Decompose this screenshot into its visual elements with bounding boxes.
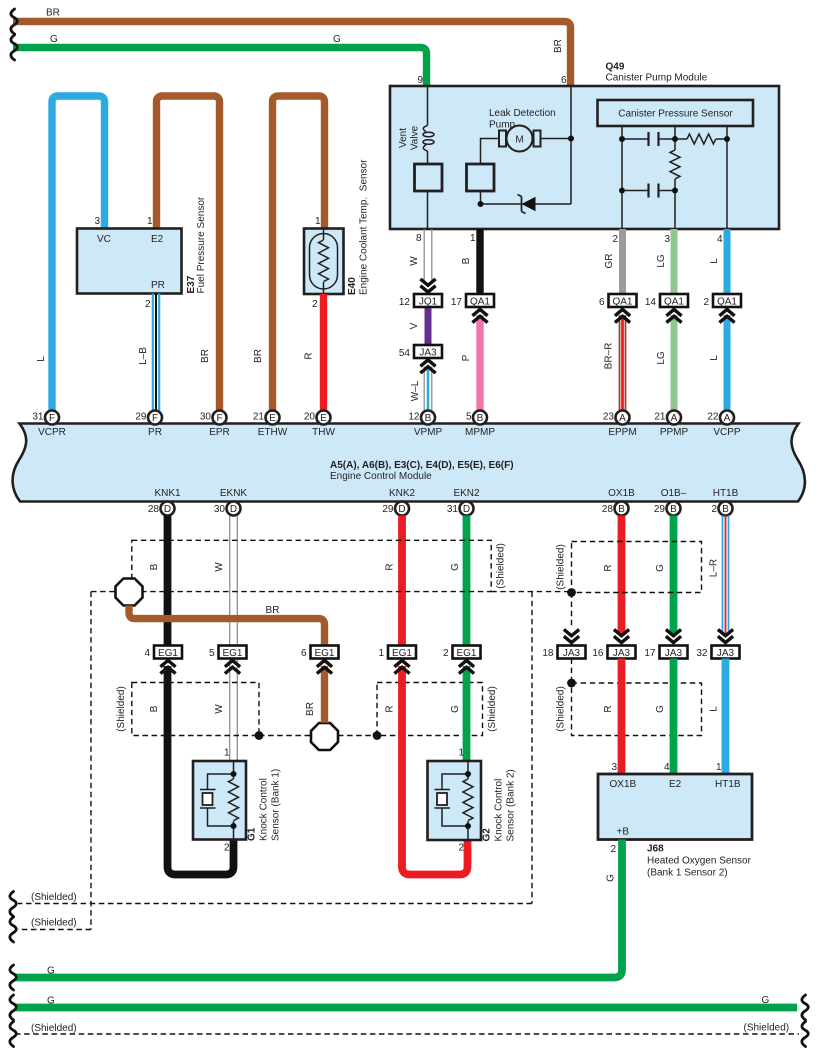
- svg-text:OX1B: OX1B: [610, 779, 637, 790]
- svg-text:BR: BR: [46, 8, 60, 19]
- svg-text:KNK1: KNK1: [154, 488, 181, 499]
- svg-text:G: G: [655, 564, 666, 572]
- svg-text:EG1: EG1: [392, 648, 412, 659]
- svg-text:F: F: [152, 413, 158, 424]
- svg-text:VC: VC: [97, 234, 111, 245]
- svg-text:17: 17: [644, 648, 656, 659]
- svg-text:QA1: QA1: [470, 297, 490, 308]
- svg-text:(Shielded): (Shielded): [31, 918, 77, 929]
- svg-text:E40: E40: [347, 277, 358, 295]
- svg-text:2: 2: [610, 844, 616, 855]
- svg-text:4: 4: [717, 234, 723, 245]
- svg-text:BR: BR: [553, 39, 564, 53]
- svg-text:BR–R: BR–R: [604, 343, 615, 370]
- svg-text:Q49: Q49: [606, 62, 625, 73]
- svg-text:2: 2: [145, 299, 151, 310]
- svg-text:E: E: [269, 413, 276, 424]
- svg-text:L–R: L–R: [709, 559, 720, 577]
- svg-text:PR: PR: [151, 280, 165, 291]
- svg-text:LG: LG: [656, 254, 667, 268]
- svg-text:18: 18: [542, 648, 554, 659]
- svg-text:G: G: [450, 563, 461, 571]
- svg-text:1: 1: [315, 216, 321, 227]
- svg-text:EG1: EG1: [314, 648, 334, 659]
- svg-text:B: B: [722, 504, 729, 515]
- svg-text:(Shielded): (Shielded): [487, 686, 498, 732]
- svg-text:G: G: [333, 34, 341, 45]
- svg-text:8: 8: [416, 233, 422, 244]
- svg-text:QA1: QA1: [664, 297, 684, 308]
- svg-text:A: A: [671, 413, 678, 424]
- svg-text:+B: +B: [617, 827, 630, 838]
- svg-text:W: W: [409, 256, 420, 266]
- svg-text:6: 6: [301, 648, 307, 659]
- svg-text:R: R: [304, 352, 315, 359]
- svg-text:1: 1: [378, 648, 384, 659]
- svg-text:D: D: [398, 504, 405, 515]
- svg-text:PPMP: PPMP: [660, 427, 689, 438]
- svg-text:KNK2: KNK2: [389, 488, 416, 499]
- svg-text:HT1B: HT1B: [713, 488, 739, 499]
- svg-text:E: E: [320, 413, 327, 424]
- svg-text:2: 2: [312, 299, 318, 310]
- svg-text:Vent: Vent: [398, 128, 409, 148]
- svg-text:2: 2: [443, 648, 449, 659]
- svg-text:ETHW: ETHW: [258, 427, 288, 438]
- svg-text:9: 9: [417, 75, 423, 86]
- svg-text:(Shielded): (Shielded): [556, 686, 567, 732]
- svg-text:G: G: [762, 995, 770, 1006]
- svg-text:JA3: JA3: [717, 648, 735, 659]
- svg-text:B: B: [477, 413, 484, 424]
- svg-text:3: 3: [94, 216, 100, 227]
- svg-text:1: 1: [224, 748, 230, 759]
- svg-text:A: A: [619, 413, 626, 424]
- svg-text:22: 22: [707, 412, 719, 423]
- svg-text:Fuel Pressure Sensor: Fuel Pressure Sensor: [196, 196, 207, 293]
- svg-text:Canister Pump Module: Canister Pump Module: [606, 73, 708, 84]
- svg-text:R: R: [603, 705, 614, 712]
- svg-text:EKN2: EKN2: [453, 488, 480, 499]
- svg-text:JQ1: JQ1: [419, 297, 438, 308]
- svg-text:L: L: [709, 355, 720, 361]
- svg-text:E2: E2: [151, 234, 164, 245]
- svg-text:(Shielded): (Shielded): [496, 543, 507, 589]
- svg-text:5: 5: [466, 412, 472, 423]
- svg-text:VPMP: VPMP: [414, 427, 443, 438]
- svg-text:EKNK: EKNK: [220, 488, 248, 499]
- svg-text:J68: J68: [647, 844, 664, 855]
- svg-text:(Bank 1 Sensor 2): (Bank 1 Sensor 2): [647, 868, 728, 879]
- svg-text:JA3: JA3: [563, 648, 581, 659]
- svg-text:31: 31: [32, 412, 44, 423]
- svg-text:B: B: [149, 563, 160, 570]
- svg-text:L: L: [709, 258, 720, 264]
- svg-text:31: 31: [447, 504, 459, 515]
- svg-text:BR: BR: [200, 349, 211, 363]
- svg-text:R: R: [385, 563, 396, 570]
- svg-text:Valve: Valve: [410, 125, 421, 150]
- svg-text:M: M: [515, 135, 523, 146]
- svg-text:QA1: QA1: [612, 297, 632, 308]
- svg-text:G2: G2: [482, 828, 493, 842]
- svg-text:VCPR: VCPR: [38, 427, 66, 438]
- svg-text:28: 28: [602, 504, 614, 515]
- svg-text:29: 29: [382, 504, 394, 515]
- svg-text:THW: THW: [312, 427, 335, 438]
- svg-text:(Shielded): (Shielded): [31, 892, 77, 903]
- svg-text:23: 23: [603, 412, 615, 423]
- svg-text:D: D: [463, 504, 470, 515]
- svg-text:B: B: [149, 705, 160, 712]
- svg-text:E2: E2: [669, 779, 682, 790]
- svg-text:GR: GR: [604, 254, 615, 269]
- svg-text:G: G: [655, 705, 666, 713]
- svg-text:B: B: [670, 504, 677, 515]
- svg-text:29: 29: [135, 412, 147, 423]
- svg-text:54: 54: [399, 348, 411, 359]
- svg-text:2: 2: [224, 843, 230, 854]
- svg-text:30: 30: [214, 504, 226, 515]
- svg-text:MPMP: MPMP: [465, 427, 495, 438]
- svg-text:Knock Control: Knock Control: [259, 778, 270, 841]
- svg-text:2: 2: [458, 843, 464, 854]
- svg-text:14: 14: [645, 297, 657, 308]
- svg-text:Leak Detection: Leak Detection: [489, 108, 556, 119]
- svg-text:29: 29: [654, 504, 666, 515]
- svg-text:6: 6: [599, 297, 605, 308]
- svg-text:L: L: [36, 356, 47, 362]
- svg-text:B: B: [425, 413, 432, 424]
- svg-text:B: B: [618, 504, 625, 515]
- svg-text:B: B: [461, 257, 472, 264]
- svg-text:4: 4: [144, 648, 150, 659]
- svg-text:LG: LG: [656, 351, 667, 365]
- svg-text:3: 3: [664, 234, 670, 245]
- svg-text:BR: BR: [305, 702, 316, 716]
- svg-text:4: 4: [664, 762, 670, 773]
- svg-text:21: 21: [654, 412, 666, 423]
- svg-text:HT1B: HT1B: [715, 779, 741, 790]
- svg-text:D: D: [230, 504, 237, 515]
- svg-text:30: 30: [200, 412, 212, 423]
- svg-text:Sensor (Bank 2): Sensor (Bank 2): [506, 769, 517, 841]
- svg-text:A: A: [724, 413, 731, 424]
- svg-text:1: 1: [458, 748, 464, 759]
- svg-text:21: 21: [253, 412, 265, 423]
- svg-text:W: W: [214, 704, 225, 714]
- svg-text:17: 17: [451, 297, 463, 308]
- svg-text:1: 1: [716, 762, 722, 773]
- svg-text:3: 3: [611, 762, 617, 773]
- svg-text:QA1: QA1: [717, 297, 737, 308]
- svg-text:12: 12: [399, 297, 411, 308]
- svg-text:2: 2: [703, 297, 709, 308]
- svg-text:F: F: [216, 413, 222, 424]
- svg-text:20: 20: [304, 412, 316, 423]
- svg-text:D: D: [164, 504, 171, 515]
- svg-text:2: 2: [612, 234, 618, 245]
- svg-text:(Shielded): (Shielded): [116, 686, 127, 732]
- svg-text:(Shielded): (Shielded): [31, 1023, 77, 1034]
- svg-text:G: G: [47, 996, 55, 1007]
- svg-text:Sensor (Bank 1): Sensor (Bank 1): [271, 769, 282, 841]
- svg-text:L: L: [709, 706, 720, 712]
- svg-text:G: G: [450, 705, 461, 713]
- svg-text:6: 6: [561, 75, 567, 86]
- svg-text:Knock Control: Knock Control: [494, 779, 505, 842]
- svg-text:1: 1: [147, 216, 153, 227]
- svg-text:EPPM: EPPM: [608, 427, 636, 438]
- svg-text:PR: PR: [148, 427, 162, 438]
- svg-text:R: R: [603, 564, 614, 571]
- svg-text:(Shielded): (Shielded): [556, 544, 567, 590]
- svg-text:Heated Oxygen Sensor: Heated Oxygen Sensor: [647, 856, 752, 867]
- svg-text:EPR: EPR: [209, 427, 230, 438]
- svg-text:Engine Coolant Temp. Sensor: Engine Coolant Temp. Sensor: [359, 159, 370, 295]
- svg-text:V: V: [409, 322, 420, 329]
- svg-text:16: 16: [592, 648, 604, 659]
- svg-text:A5(A), A6(B), E3(C), E4(D), E5: A5(A), A6(B), E3(C), E4(D), E5(E), E6(F): [330, 460, 514, 471]
- svg-text:G: G: [50, 34, 58, 45]
- svg-text:JA3: JA3: [419, 348, 437, 359]
- svg-text:EG1: EG1: [456, 648, 476, 659]
- svg-text:W: W: [214, 562, 225, 572]
- svg-text:BR: BR: [266, 605, 280, 616]
- svg-text:VCPP: VCPP: [713, 427, 741, 438]
- svg-text:R: R: [385, 705, 396, 712]
- svg-text:Canister Pressure Sensor: Canister Pressure Sensor: [618, 109, 733, 120]
- svg-text:12: 12: [408, 412, 420, 423]
- svg-text:O1B–: O1B–: [661, 488, 687, 499]
- svg-text:Engine Control Module: Engine Control Module: [330, 471, 432, 482]
- svg-text:L–B: L–B: [138, 347, 149, 365]
- svg-text:F: F: [49, 413, 55, 424]
- svg-text:G: G: [606, 874, 617, 882]
- svg-text:Pump: Pump: [489, 120, 516, 131]
- svg-text:2: 2: [711, 504, 717, 515]
- svg-text:(Shielded): (Shielded): [744, 1023, 790, 1034]
- svg-text:5: 5: [209, 648, 215, 659]
- svg-text:EG1: EG1: [158, 648, 178, 659]
- svg-text:32: 32: [696, 648, 708, 659]
- svg-text:W–L: W–L: [410, 380, 421, 401]
- svg-text:28: 28: [148, 504, 160, 515]
- svg-text:JA3: JA3: [665, 648, 683, 659]
- svg-text:1: 1: [470, 233, 476, 244]
- svg-text:BR: BR: [253, 349, 264, 363]
- svg-text:EG1: EG1: [222, 648, 242, 659]
- svg-text:G1: G1: [247, 827, 258, 841]
- svg-text:P: P: [461, 354, 472, 361]
- svg-text:OX1B: OX1B: [608, 488, 635, 499]
- svg-text:JA3: JA3: [613, 648, 631, 659]
- svg-text:G: G: [47, 966, 55, 977]
